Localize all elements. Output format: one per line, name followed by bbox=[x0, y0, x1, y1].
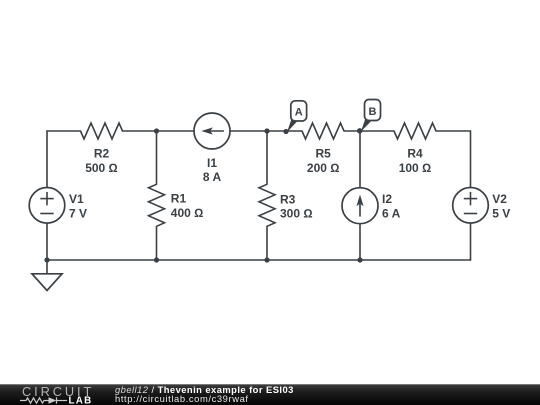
wire ground stub bbox=[46, 260, 48, 274]
svg-text:5 V: 5 V bbox=[492, 206, 510, 220]
wire R3 bottom lead bbox=[266, 226, 268, 260]
CircuitLab logo resistor-diode icon bbox=[20, 397, 67, 403]
junction dot R3 top bbox=[264, 128, 269, 133]
svg-text:6 A: 6 A bbox=[382, 206, 401, 220]
wire bottom rail bbox=[47, 259, 471, 261]
svg-text:A: A bbox=[295, 106, 303, 118]
wire R1 bottom lead bbox=[156, 226, 158, 260]
svg-text:R4: R4 bbox=[407, 147, 423, 161]
svg-text:200 Ω: 200 Ω bbox=[307, 161, 340, 175]
resistor R4 100 ohm bbox=[394, 123, 436, 175]
wire R1 top lead bbox=[156, 131, 158, 184]
junction dot R1 top bbox=[154, 128, 159, 133]
wire V1 bottom lead bbox=[46, 223, 48, 260]
voltage source V2 5 V bbox=[453, 188, 511, 224]
wire R4 to V2 top bbox=[436, 131, 471, 188]
svg-text:100 Ω: 100 Ω bbox=[399, 161, 432, 175]
svg-text:R3: R3 bbox=[280, 193, 296, 207]
svg-text:R5: R5 bbox=[316, 147, 332, 161]
current source I2 6 A bbox=[342, 188, 401, 224]
svg-text:V1: V1 bbox=[69, 192, 84, 206]
node A flag bbox=[287, 101, 307, 133]
wire R5 to R4 bbox=[344, 130, 394, 132]
node B flag bbox=[361, 100, 381, 132]
resistor R1 400 ohm bbox=[149, 184, 204, 226]
junction dot node B bbox=[357, 128, 362, 133]
svg-text:500 Ω: 500 Ω bbox=[85, 161, 118, 175]
resistor R2 500 ohm bbox=[81, 123, 123, 175]
svg-text:http://circuitlab.com/c39rwaf: http://circuitlab.com/c39rwaf bbox=[115, 393, 249, 404]
svg-text:R2: R2 bbox=[94, 147, 110, 161]
svg-text:V2: V2 bbox=[492, 192, 507, 206]
resistor R3 300 ohm bbox=[259, 184, 313, 226]
junction dot R1 bottom bbox=[154, 257, 159, 262]
svg-text:I2: I2 bbox=[382, 192, 392, 206]
svg-text:I1: I1 bbox=[207, 156, 217, 170]
junction dot V1 bottom bbox=[44, 257, 49, 262]
svg-text:300 Ω: 300 Ω bbox=[280, 207, 313, 221]
svg-text:7 V: 7 V bbox=[69, 206, 87, 220]
wire I1 to node A bbox=[230, 130, 302, 132]
junction dot R3 bottom bbox=[264, 257, 269, 262]
wire I2 bottom lead bbox=[359, 224, 361, 260]
ground bbox=[32, 274, 62, 291]
wire R3 top lead bbox=[266, 131, 268, 184]
svg-text:LAB: LAB bbox=[69, 395, 93, 405]
wire V2 bottom lead bbox=[470, 223, 472, 260]
svg-text:8 A: 8 A bbox=[203, 170, 222, 184]
junction dot node A bbox=[283, 129, 288, 134]
wire top-left V1 to R2 bbox=[47, 131, 81, 188]
resistor R5 200 ohm bbox=[302, 123, 344, 175]
svg-text:400 Ω: 400 Ω bbox=[171, 206, 204, 220]
wire I2 top lead bbox=[359, 131, 361, 188]
svg-text:R1: R1 bbox=[171, 192, 187, 206]
current source I1 8 A bbox=[194, 113, 230, 184]
svg-text:B: B bbox=[369, 106, 377, 118]
voltage source V1 7 V bbox=[29, 188, 87, 224]
wire R2 to I1 bbox=[123, 130, 195, 132]
junction dot I2 bottom bbox=[357, 257, 362, 262]
